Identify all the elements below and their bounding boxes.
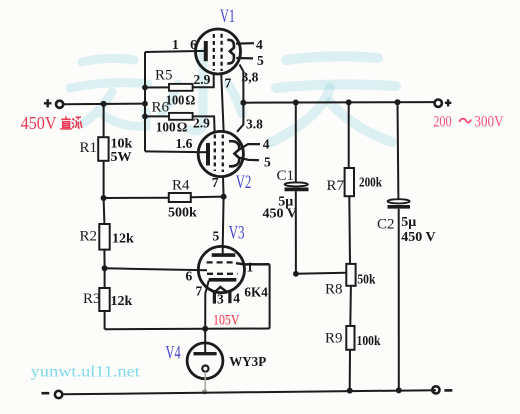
V2 pin7 wire down [222, 177, 225, 197]
svg-text:V1: V1 [220, 6, 235, 27]
V3 cathode bar [209, 278, 237, 282]
V3 plate lead stub [222, 246, 224, 255]
wire R7 to R8 [348, 196, 351, 264]
wire vertical column x=145 [144, 52, 146, 151]
V4 anode bar [194, 352, 217, 355]
node R2 bottom / V3 cathode wire [102, 265, 108, 271]
label 450V DC red text [21, 113, 57, 133]
output + terminal ring [435, 100, 442, 107]
wire R1 leads [103, 104, 105, 198]
tube V4 envelope [187, 343, 223, 379]
node R1 top [101, 101, 107, 107]
V3 pin1 lead to right [236, 263, 270, 264]
resistor R8 [346, 264, 355, 286]
svg-text:1: 1 [247, 260, 254, 275]
resistor R6 [169, 113, 193, 120]
svg-text:5μ: 5μ [401, 215, 416, 230]
V3 grid dashed row 1 [207, 261, 234, 263]
tube V2 envelope [198, 131, 243, 176]
wire R3 leads [104, 268, 106, 329]
svg-text:V3: V3 [229, 222, 245, 243]
bottom left minus sign [42, 392, 50, 395]
wire V2 cathode pins 1,6 [145, 150, 208, 153]
svg-text:5: 5 [257, 53, 264, 68]
resistor R2 [99, 224, 109, 250]
V3 heater [213, 287, 227, 294]
svg-text:C2: C2 [377, 216, 395, 232]
V1 pin5 lead [236, 57, 253, 60]
node R5 left [142, 85, 148, 91]
node C1 top [293, 100, 299, 106]
node C2 top [395, 99, 401, 105]
svg-text:4: 4 [256, 37, 263, 52]
svg-text:100k: 100k [357, 334, 381, 349]
C1 bottom plate [285, 187, 309, 191]
svg-text:yunwt.ul11.net: yunwt.ul11.net [31, 363, 141, 380]
wire B+ top rail [243, 101, 434, 104]
svg-text:7: 7 [212, 175, 219, 190]
svg-text:3,8: 3,8 [242, 69, 259, 84]
tube V1 envelope [196, 29, 241, 74]
V4 cathode dot [202, 366, 208, 372]
svg-text:7: 7 [196, 284, 203, 299]
node 3,8 on main B+ wire [240, 100, 246, 106]
V2 pin5 lead [239, 158, 260, 161]
node R1 bottom / R4 left [101, 195, 107, 201]
resistor R5 [169, 84, 193, 91]
svg-text:WY3P: WY3P [229, 355, 266, 370]
svg-text:R5: R5 [155, 67, 173, 83]
node R9 bottom [347, 388, 353, 394]
node V2 pin7 bottom [221, 194, 227, 200]
svg-text:R6: R6 [152, 100, 170, 116]
node R5/R6 column on main wire [142, 101, 148, 107]
svg-text:500k: 500k [168, 206, 197, 221]
V3 cathode pin7 wire down [205, 281, 209, 329]
svg-text:2.9: 2.9 [193, 115, 210, 130]
svg-text:200: 200 [433, 114, 452, 131]
output plus sign [445, 99, 451, 106]
resistor R1 [98, 137, 108, 161]
wire bottom row y=329 to pin1 return [105, 328, 270, 331]
node V4 top on y=329 wire [202, 326, 208, 332]
wire to V3 cathode pin6 [105, 268, 207, 270]
resistor R4 [169, 193, 191, 202]
bottom rail [63, 390, 437, 394]
node R7 top [346, 99, 352, 105]
wire R6 leads [145, 116, 215, 131]
svg-text:4: 4 [263, 137, 270, 152]
svg-text:R2: R2 [80, 229, 98, 245]
node C2 bottom [396, 387, 402, 393]
resistor R9 [346, 326, 354, 350]
svg-text:R8: R8 [325, 282, 343, 298]
label 450V DC hanzi 直流 [60, 116, 82, 129]
svg-text:R4: R4 [172, 178, 190, 194]
svg-text:100 Ω: 100 Ω [156, 121, 188, 136]
svg-text:R9: R9 [325, 330, 343, 346]
V1 cathode bar [204, 41, 208, 61]
V1 plate [227, 40, 234, 63]
svg-text:R7: R7 [327, 178, 345, 194]
node R6 left [142, 114, 148, 120]
input terminal ring [56, 101, 63, 108]
svg-text:12k: 12k [112, 231, 134, 246]
resistor R7 [345, 168, 354, 196]
svg-text:V2: V2 [236, 172, 252, 193]
watermark 天 [272, 56, 396, 142]
C1 bottom lead [295, 191, 297, 274]
svg-text:V4: V4 [166, 343, 182, 364]
wire R9 bottom lead [349, 350, 351, 391]
wire R5 leads [145, 74, 214, 88]
svg-text:450 V: 450 V [263, 206, 297, 221]
svg-text:450 V: 450 V [401, 230, 435, 245]
svg-text:450V: 450V [21, 113, 57, 133]
svg-text:100 Ω: 100 Ω [166, 93, 196, 108]
svg-text:3: 3 [217, 292, 224, 307]
wire pin1 down to y=329 [269, 264, 271, 328]
svg-text:5W: 5W [111, 150, 132, 165]
svg-text:2.9: 2.9 [194, 72, 211, 87]
svg-text:12k: 12k [111, 294, 133, 309]
V1 pin7 wire down to V2 [221, 73, 223, 131]
V3 heater pin 4 [228, 291, 231, 304]
svg-text:4: 4 [233, 291, 240, 306]
C2 bottom lead [398, 209, 400, 391]
svg-text:R1: R1 [80, 140, 98, 156]
wire pins 1,6 to V1 cathode [145, 51, 206, 52]
svg-text:300V: 300V [474, 114, 504, 131]
svg-text:5: 5 [264, 155, 271, 170]
capacitor C2 top lead [397, 102, 400, 199]
V1 pin4 lead [236, 42, 254, 45]
svg-text:5: 5 [213, 229, 220, 244]
node C1 bottom corner [293, 271, 299, 277]
wire input to R5/R6 column [64, 103, 145, 106]
svg-text:6: 6 [186, 269, 193, 284]
V4 bottom faint lead [204, 372, 206, 391]
V1 grid dashed 1 [213, 34, 215, 71]
V2 cathode bar [206, 143, 210, 166]
watermark 小 [162, 52, 242, 131]
svg-text:6K4: 6K4 [244, 286, 267, 301]
tube V3 envelope [198, 246, 244, 292]
V2 pin4 lead [239, 144, 261, 150]
V2 plate [229, 141, 239, 166]
C2 bottom plate [388, 205, 411, 209]
svg-text:105V: 105V [213, 313, 240, 329]
svg-text:R3: R3 [83, 291, 101, 307]
wire V2 pin7 down to V3 pin5 [222, 197, 225, 247]
V3 heater pin 3 [213, 292, 216, 304]
V2 grid dashed 2 [222, 135, 224, 173]
bottom right minus sign [444, 389, 452, 392]
svg-text:7: 7 [225, 76, 232, 91]
wire V4 top lead [204, 329, 206, 343]
svg-text:C1: C1 [277, 168, 295, 184]
V3 grid dashed row 2 [207, 273, 238, 275]
V2 grid dashed 1 [214, 135, 216, 172]
label 200~300V output [433, 114, 504, 131]
svg-text:1.6: 1.6 [176, 136, 193, 151]
tilde of 200~300V [459, 119, 471, 123]
wire R8 to R9 [349, 286, 352, 326]
wire R2 leads [104, 198, 105, 268]
V4 faint node on bottom rail [202, 389, 207, 394]
V4 anode lead stub [204, 343, 206, 353]
svg-text:200k: 200k [359, 176, 382, 191]
V3 plate bar [212, 253, 236, 257]
wire R7 top lead [348, 102, 350, 168]
resistor R3 [99, 288, 109, 311]
svg-text:1 6: 1 6 [172, 37, 201, 52]
watermark 云 [70, 58, 148, 126]
bottom right terminal ring [432, 386, 439, 393]
svg-text:50k: 50k [357, 272, 375, 287]
input + terminal plus sign [44, 99, 52, 107]
V1 grid dashed 2 [220, 34, 222, 71]
wire C1 to R8 [296, 273, 346, 274]
C2 top plate [388, 199, 410, 203]
bottom left terminal ring [55, 391, 62, 398]
wire V1/V2 plates 3,8 vertical [237, 65, 243, 132]
capacitor C1 top lead [295, 103, 297, 183]
svg-text:3.8: 3.8 [246, 117, 263, 132]
wire R4 row [104, 197, 224, 198]
C1 top plate [285, 182, 308, 186]
